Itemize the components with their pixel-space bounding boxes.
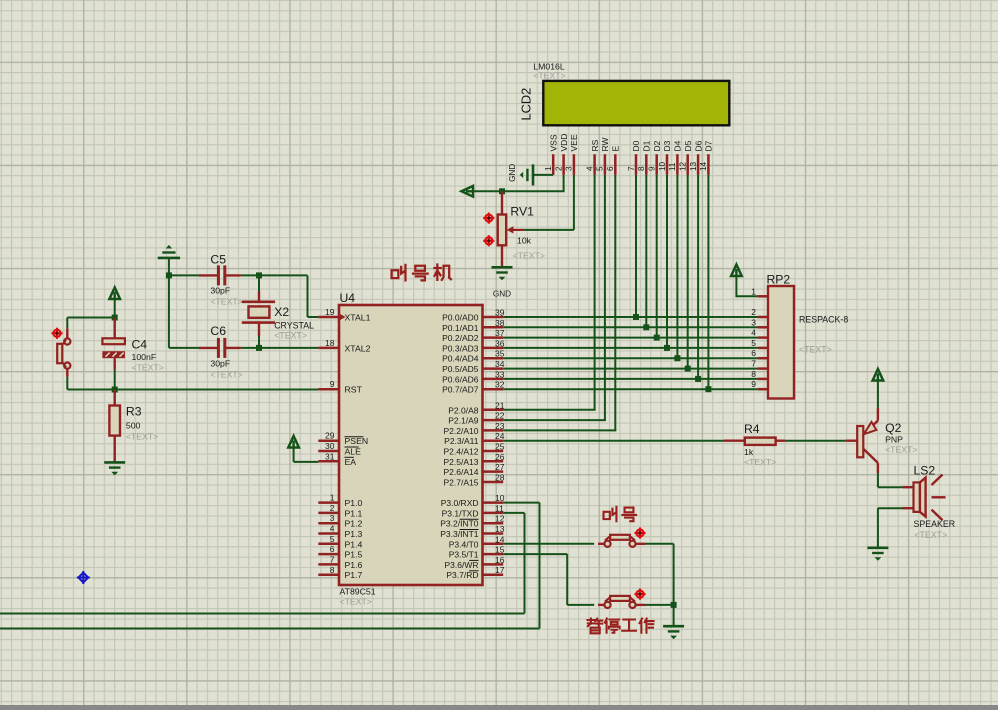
svg-text:9: 9 [648,166,657,171]
label text "call" (Chinese) above call button [604,507,637,521]
svg-text:P0.1/AD1: P0.1/AD1 [442,323,479,333]
RP2 pin 9 stub [751,379,768,389]
LCD pin 4 RS stub and labels [585,139,599,175]
U4 pin 27 P2.6/A14 [444,462,505,477]
reference label R4 [744,422,760,436]
power symbol VCC at RP2 [731,265,742,277]
svg-text:P3.6/WR: P3.6/WR [444,560,478,570]
origin marker (blue) [77,571,90,584]
svg-text:7: 7 [627,166,636,171]
reference label X2 [274,305,289,319]
U4 pin 39 P0.0/AD0 [442,308,505,323]
reference label U4 [340,291,356,305]
U4 pin 23 P2.2/A10 [444,421,505,436]
value label 30pF (C6) [210,359,230,369]
svg-text:3: 3 [330,513,335,523]
RP2 pin 6 stub [751,348,768,358]
label LM016L [533,62,565,72]
LCD pin 1 VSS stub and labels [544,134,558,175]
svg-text:10k: 10k [517,236,532,246]
svg-text:2: 2 [751,307,756,317]
svg-text:11: 11 [495,503,504,513]
svg-text:XTAL1: XTAL1 [345,313,371,323]
LCD pin 6 E stub and labels [606,146,620,175]
svg-text:1: 1 [544,166,553,171]
wire P0.5 net U4 pin 34 to RP2 pin 7 [503,368,757,370]
wire C4 bottom [114,370,116,390]
capacitor C4 [102,318,125,370]
svg-text:P3.1/TXD: P3.1/TXD [442,508,479,518]
svg-text:P2.2/A10: P2.2/A10 [444,426,479,436]
svg-text:13: 13 [689,161,698,171]
svg-text:LCD2: LCD2 [519,88,534,121]
svg-text:7: 7 [751,359,756,369]
capacitor C5 [199,265,241,285]
junction ground/C5 [166,272,172,278]
U4 pin 36 P0.3/AD3 [442,338,505,353]
wire U4 P3.1/TXD down-left [0,513,525,614]
U4 pin 37 P0.2/AD2 [442,328,505,343]
capacitor C6 [199,338,241,358]
wire LCD D4 vertical to P0.4 net [676,175,678,358]
svg-text:<TEXT>: <TEXT> [914,530,947,540]
U4 pin 3 P1.2 [318,513,362,529]
junction reset power/C4 [112,315,118,321]
svg-text:1k: 1k [744,447,754,457]
junction D6/P0.6 [695,376,701,382]
wire LCD D2 vertical to P0.2 net [656,175,658,338]
junction buttons ground net [671,602,677,608]
wire P0.0 net U4 pin 39 to RP2 pin 2 [503,316,757,318]
svg-text:D3: D3 [662,140,672,151]
svg-text:3: 3 [565,166,574,171]
ground symbol below RV1 [492,267,513,280]
label <TEXT> of C5 [210,297,242,307]
junction D0/P0.0 [633,314,639,320]
svg-text:P2.3/A11: P2.3/A11 [444,436,479,446]
wire R4 to Q2 base [785,440,846,442]
label <TEXT> of X2 [274,331,307,341]
wire P0.2 net U4 pin 37 to RP2 pin 4 [503,337,757,339]
push button call (jiao hao) [598,535,645,547]
U4 pin 8 P1.7 [318,565,362,580]
svg-text:RP2: RP2 [767,273,791,287]
svg-text:P2.5/A13: P2.5/A13 [444,457,479,467]
svg-text:P3.0/RXD: P3.0/RXD [441,498,479,508]
svg-text:12: 12 [495,514,505,524]
LCD pin 10 D3 stub and labels [658,140,672,175]
svg-text:6: 6 [751,348,756,358]
U4 pin 32 P0.7/AD7 [442,380,505,395]
ground symbol below buttons [663,626,684,639]
reference label RP2 [767,273,791,287]
wire LCD RS to U4 P2.0 [503,175,595,410]
svg-text:D7: D7 [704,140,714,151]
svg-text:<TEXT>: <TEXT> [799,345,832,355]
RV1 adjust actuator down [483,235,494,246]
svg-text:30pF: 30pF [210,286,230,296]
power symbol VCC at reset [109,288,120,300]
potentiometer RV1 [498,191,524,267]
RP2 pin 4 stub [751,328,768,338]
svg-text:3: 3 [751,317,756,327]
junction D2/P0.2 [654,335,660,341]
svg-text:14: 14 [699,161,708,171]
wire LCD D7 vertical to P0.7 net [707,175,709,389]
svg-text:SPEAKER: SPEAKER [914,519,956,529]
wire P0.6 net U4 pin 33 to RP2 pin 8 [503,378,757,380]
U4 pin 28 P2.7/A15 [444,473,505,488]
label <TEXT> of C6 [210,370,242,380]
value label RESPACK-8 [799,315,848,325]
svg-text:VSS: VSS [548,134,558,151]
label <TEXT> of C4 [132,363,164,373]
svg-text:8: 8 [751,369,756,379]
value label AT89C51 [340,587,376,597]
svg-text:P1.4: P1.4 [345,539,363,549]
svg-text:C4: C4 [132,338,148,352]
ground symbol top-left (crystal caps) [158,245,180,258]
U4 pin 12 P3.2/INT0 [440,514,505,529]
svg-text:10: 10 [658,161,667,171]
svg-text:<TEXT>: <TEXT> [210,370,242,380]
label <TEXT> of RP2 [799,345,832,355]
svg-text:P3.5/T1: P3.5/T1 [449,550,479,560]
U4 pin 24 P2.3/A11 [444,431,505,446]
RP2 pin 8 stub [751,369,768,379]
svg-text:D4: D4 [673,140,683,151]
value label 10k [517,236,532,246]
svg-text:P2.4/A12: P2.4/A12 [444,447,479,457]
LCD pin 3 VEE stub and labels [565,134,579,175]
U4 pin 6 P1.5 [318,544,362,560]
svg-text:GND: GND [493,290,511,299]
svg-text:P0.0/AD0: P0.0/AD0 [442,313,479,323]
reference label C5 [210,253,226,267]
U4 pin 2 P1.1 [318,503,362,519]
reset button actuator [51,328,62,339]
wire U4 P2.3 to R4 [503,440,724,442]
junction D1/P0.1 [643,324,649,330]
label <TEXT> of R4 [744,457,776,467]
U4 pin 29 PSEN [318,431,368,447]
label text "pause work" (Chinese) below pause button [588,619,654,634]
ground symbol below R3 [104,462,125,475]
wire U4 P3.0/RXD down-left [0,503,540,629]
label <TEXT> of U4 [340,597,372,607]
RV1 adjust actuator up [483,213,494,224]
svg-text:1: 1 [751,286,756,296]
svg-text:P0.3/AD3: P0.3/AD3 [442,343,479,353]
U4 pin 4 P1.3 [318,524,362,540]
U4 pin 10 P3.0/RXD [441,493,505,508]
U4 pin 1 P1.0 [318,493,362,509]
svg-text:P0.5/AD5: P0.5/AD5 [442,364,479,374]
svg-text:D6: D6 [693,140,703,151]
svg-text:RST: RST [345,385,363,395]
power symbol VCC at Q2 emitter [873,369,884,381]
svg-text:AT89C51: AT89C51 [340,587,376,597]
reference label LCD2 (rotated) [519,88,534,121]
label <TEXT> of R3 [126,432,158,442]
svg-text:P0.2/AD2: P0.2/AD2 [442,333,479,343]
svg-text:8: 8 [330,565,335,575]
U4 pin 7 P1.6 [318,554,362,570]
resistor R3 [109,390,120,463]
svg-text:P3.4/T0: P3.4/T0 [449,539,479,549]
wire Q2 emitter to power [877,381,879,408]
svg-text:9: 9 [330,379,335,389]
U4 pin 34 P0.5/AD5 [442,359,505,374]
LCD pin 12 D5 stub and labels [679,140,693,175]
U4 pin 22 P2.1/A9 [448,411,504,426]
wire P0.1 net U4 pin 38 to RP2 pin 3 [503,326,757,328]
svg-text:30: 30 [325,441,335,451]
svg-text:31: 31 [325,451,335,461]
svg-text:25: 25 [495,442,505,452]
wire LCD D1 vertical to P0.1 net [645,175,647,327]
LCD pin 14 D7 stub and labels [699,140,713,175]
ground symbol at LCD VSS [520,164,533,185]
svg-text:P3.2/INT0: P3.2/INT0 [440,519,479,529]
power symbol VCC at VDD [462,186,474,197]
svg-text:29: 29 [325,431,335,441]
svg-text:X2: X2 [274,305,289,319]
RP2 pin 3 stub [751,317,768,327]
svg-text:D1: D1 [642,140,652,151]
svg-text:<TEXT>: <TEXT> [210,297,242,307]
svg-text:4: 4 [585,166,594,171]
transistor Q2 PNP [846,408,878,473]
label <TEXT> of LS2 [914,530,947,540]
svg-text:<TEXT>: <TEXT> [533,71,565,81]
svg-text:XTAL2: XTAL2 [345,343,371,353]
reference label RV1 [510,205,534,219]
svg-text:C5: C5 [210,253,226,267]
svg-text:C6: C6 [210,324,226,338]
wire reset top net [67,300,115,329]
U4 pin 18 XTAL2 [318,338,370,354]
junction C6/X2 bottom [256,345,262,351]
label <TEXT> of Q2 [885,445,917,455]
wire VSS to ground [533,174,553,176]
U4 pin 30 ALE [318,441,361,457]
push button reset [57,328,70,376]
U4 pin 17 P3.7/RD [446,565,504,580]
svg-text:P1.1: P1.1 [345,508,363,518]
U4 pin 35 P0.4/AD4 [442,349,505,364]
svg-text:8: 8 [637,166,646,171]
svg-text:<TEXT>: <TEXT> [513,251,545,261]
wire LCD D6 vertical to P0.6 net [697,175,699,379]
U4 pin 31 EA [318,451,356,467]
label <TEXT> of LCD2 [533,71,565,81]
svg-text:PSEN: PSEN [345,436,369,446]
svg-text:Q2: Q2 [885,421,901,435]
LCD LCD2 LM016L screen body [543,81,729,125]
svg-text:13: 13 [495,524,505,534]
RP2 pin 1 stub [751,286,768,296]
svg-text:4: 4 [751,328,756,338]
svg-text:D5: D5 [683,140,693,151]
svg-text:RESPACK-8: RESPACK-8 [799,315,848,325]
svg-text:<TEXT>: <TEXT> [340,597,372,607]
svg-text:P3.7/RD: P3.7/RD [446,570,478,580]
svg-text:16: 16 [495,555,505,565]
svg-text:ALE: ALE [345,447,362,457]
wire ground to C5/C6 left [169,258,199,348]
RP2 pin 7 stub [751,359,768,369]
svg-text:<TEXT>: <TEXT> [132,363,164,373]
LCD pin 2 VDD stub and labels [554,134,568,175]
svg-text:EA: EA [345,457,357,467]
svg-text:2: 2 [554,166,563,171]
value label PNP [885,435,903,445]
LCD pin 7 D0 stub and labels [627,140,641,175]
value label 500 [126,421,141,431]
power symbol VCC at EA [288,436,299,448]
svg-text:P2.1/A9: P2.1/A9 [448,416,479,426]
svg-text:6: 6 [606,166,615,171]
svg-text:RS: RS [590,139,600,151]
junction D3/P0.3 [664,345,670,351]
svg-text:P1.0: P1.0 [345,498,363,508]
wire LCD RW to U4 P2.1 [503,175,606,420]
value label CRYSTAL [274,321,314,331]
wire P0.7 net U4 pin 32 to RP2 pin 9 [503,388,757,390]
svg-text:1: 1 [330,493,335,503]
svg-text:D0: D0 [631,140,641,151]
svg-text:9: 9 [751,379,756,389]
svg-text:30pF: 30pF [210,359,230,369]
label GND below RV1 [493,290,511,299]
push button pause (zan ting) [598,596,645,608]
wire C6 right to XTAL2 [241,347,318,349]
svg-text:P0.6/AD6: P0.6/AD6 [442,374,479,384]
wire VEE to RV1 wiper [523,175,574,230]
wire reset bottom to RST [67,377,318,390]
wire P0.4 net U4 pin 35 to RP2 pin 6 [503,357,757,359]
wire U4 P3.5/T1 to pause button [503,554,594,605]
svg-text:P2.0/A8: P2.0/A8 [448,405,479,415]
reference label Q2 [885,421,901,435]
LCD pin 8 D1 stub and labels [637,140,651,175]
svg-text:18: 18 [325,338,335,348]
wire U4 P3.4/T0 to call button [503,543,594,545]
wire buttons right side to ground [645,544,674,626]
svg-text:D2: D2 [652,140,662,151]
svg-text:5: 5 [596,166,605,171]
U4 pin 38 P0.1/AD1 [442,318,505,333]
svg-text:VDD: VDD [559,134,569,152]
svg-text:7: 7 [330,554,335,564]
reference label R3 [126,405,142,419]
RP2 pin 2 stub [751,307,768,317]
U4 pin 5 P1.4 [318,534,362,550]
svg-text:<TEXT>: <TEXT> [885,445,917,455]
U4 pin 16 P3.6/WR [444,555,504,570]
svg-text:P1.6: P1.6 [345,560,363,570]
svg-text:P2.6/A14: P2.6/A14 [444,467,479,477]
U4 pin 14 P3.4/T0 [449,534,505,549]
wire Q2 collector to speaker [878,473,903,487]
reference label C4 [132,338,148,352]
svg-text:12: 12 [679,161,688,171]
svg-text:PNP: PNP [885,435,903,445]
value label 1k [744,447,754,457]
svg-text:P0.4/AD4: P0.4/AD4 [442,354,479,364]
resistor R4 [724,438,785,445]
wire LCD D5 vertical to P0.5 net [687,175,689,369]
LCD pin 13 D6 stub and labels [689,140,703,175]
call button actuator [634,527,645,538]
U4 pin 25 P2.4/A12 [444,442,505,457]
value label 100nF [132,352,157,362]
title text "call machine" (Chinese) [392,265,451,281]
wire speaker bottom to ground [878,508,903,548]
U4 pin 21 P2.0/A8 [448,400,504,415]
svg-text:E: E [611,146,621,152]
label GND at LCD (rotated) [508,164,517,182]
wire P0.3 net U4 pin 36 to RP2 pin 5 [503,347,757,349]
svg-text:P1.7: P1.7 [345,570,363,580]
wire RP2 pin1 to power [736,277,757,298]
svg-text:11: 11 [668,162,677,171]
svg-text:LS2: LS2 [914,464,936,478]
junction D4/P0.4 [674,355,680,361]
svg-text:19: 19 [325,307,335,317]
svg-text:17: 17 [495,565,505,575]
speaker LS2 [903,475,946,521]
value label SPEAKER [914,519,956,529]
svg-text:500: 500 [126,421,141,431]
svg-text:2: 2 [330,503,335,513]
LCD pin 9 D2 stub and labels [648,140,662,175]
svg-text:<TEXT>: <TEXT> [744,457,776,467]
junction C4/R3/RST [112,387,118,393]
svg-text:R3: R3 [126,405,142,419]
junction VDD/RV1 [499,188,505,194]
LCD pin 5 RW stub and labels [596,137,610,174]
junction D5/P0.5 [685,366,691,372]
svg-text:GND: GND [508,164,517,182]
label <TEXT> of RV1 [513,251,545,261]
U4 pin 26 P2.5/A13 [444,452,505,467]
svg-text:<TEXT>: <TEXT> [126,432,158,442]
U4 pin 9 RST [318,379,362,395]
crystal X2 [242,275,275,348]
reference label C6 [210,324,226,338]
wire VDD to power [474,175,565,191]
junction C5/X2 top [256,272,262,278]
svg-text:U4: U4 [340,291,356,305]
svg-text:RW: RW [600,137,610,151]
svg-text:<TEXT>: <TEXT> [274,331,307,341]
reference label LS2 [914,464,936,478]
svg-text:RV1: RV1 [510,205,534,219]
U4 pin 33 P0.6/AD6 [442,369,505,384]
wire LCD E to U4 P2.2 [503,175,616,431]
wire EA to power [294,448,319,462]
svg-text:R4: R4 [744,422,760,436]
pause button actuator [634,589,645,600]
resistor pack RP2 body [768,286,794,399]
svg-text:P2.7/A15: P2.7/A15 [444,478,479,488]
svg-text:28: 28 [495,473,505,483]
svg-text:P3.3/INT1: P3.3/INT1 [440,529,479,539]
svg-text:27: 27 [495,462,505,472]
svg-text:CRYSTAL: CRYSTAL [274,321,314,331]
